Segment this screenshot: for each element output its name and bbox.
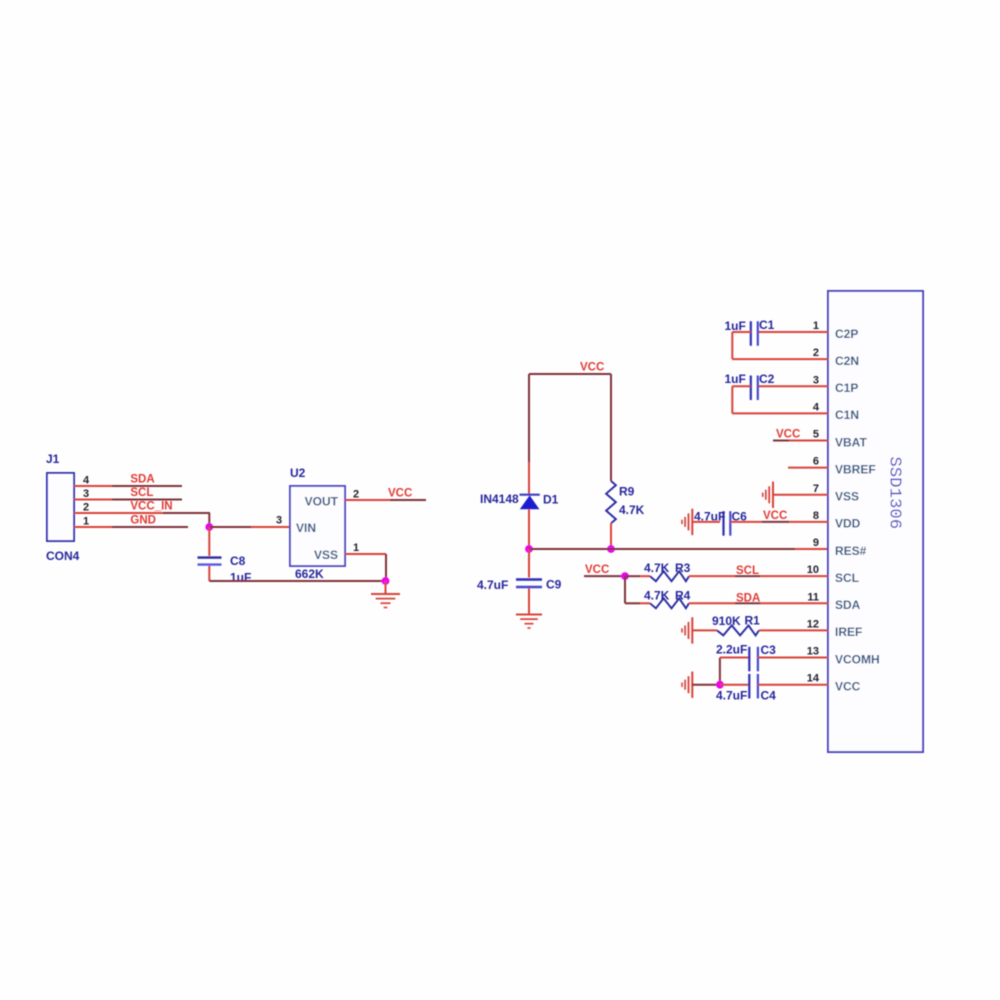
IC pin 8 name VDD xyxy=(835,517,861,531)
svg-text:VSS: VSS xyxy=(835,490,859,504)
svg-text:3: 3 xyxy=(83,488,89,500)
label R1 xyxy=(745,614,761,628)
resistor R1 xyxy=(717,625,759,635)
IC pin number 3 xyxy=(813,374,819,386)
svg-text:R4: R4 xyxy=(675,588,691,602)
wire junction stub down xyxy=(385,581,387,594)
svg-text:C1: C1 xyxy=(759,318,775,332)
label C1 xyxy=(759,318,775,332)
wire ground to C4 junction xyxy=(692,684,720,686)
svg-text:4.7K: 4.7K xyxy=(644,561,670,575)
IC pin 13 wire (VCOMH) xyxy=(758,657,828,659)
svg-text:C2P: C2P xyxy=(835,327,858,341)
svg-text:SCL: SCL xyxy=(130,487,153,499)
svg-text:3: 3 xyxy=(276,514,282,526)
svg-text:1uF: 1uF xyxy=(230,571,251,585)
value 4.7K of R4 xyxy=(644,588,670,602)
label D1 xyxy=(543,492,559,506)
svg-text:VOUT: VOUT xyxy=(305,494,339,508)
svg-text:C1N: C1N xyxy=(835,408,859,422)
IC pin number 11 xyxy=(807,591,819,603)
IC pin 4 name C1N xyxy=(835,408,859,422)
J1 pin number 1 xyxy=(83,515,89,527)
wire ground to C6 xyxy=(692,521,720,523)
svg-text:VCC_IN: VCC_IN xyxy=(130,501,172,513)
capacitor C6 xyxy=(724,511,731,535)
svg-text:VBREF: VBREF xyxy=(835,462,876,476)
wire junction to R3 xyxy=(625,575,650,577)
value 4.7uF of C6 xyxy=(694,510,725,524)
svg-text:14: 14 xyxy=(807,673,820,685)
label J1 xyxy=(46,452,60,466)
label U2 xyxy=(290,466,306,480)
svg-text:2: 2 xyxy=(813,347,819,359)
IC pin number 14 xyxy=(807,673,820,685)
svg-text:2: 2 xyxy=(83,501,89,513)
IC pin 11 name SDA xyxy=(835,598,861,612)
svg-text:1uF: 1uF xyxy=(725,372,746,386)
IC pin 5 wire (VBAT) xyxy=(773,440,828,442)
value 4.7uF of C4 xyxy=(716,689,747,703)
svg-text:C4: C4 xyxy=(761,689,777,703)
IC pin 5 name VBAT xyxy=(835,435,867,449)
J1 pin 1 wire (GND) xyxy=(74,526,188,528)
svg-text:VCC: VCC xyxy=(585,564,609,576)
svg-text:VIN: VIN xyxy=(296,521,316,535)
svg-text:C9: C9 xyxy=(546,577,562,591)
svg-text:VDD: VDD xyxy=(835,517,861,531)
net label VCC at VBAT xyxy=(776,428,800,440)
wire U2 VSS to ground xyxy=(345,554,386,581)
J1 pin 2 wire (VCC_IN) xyxy=(74,512,210,514)
svg-text:3: 3 xyxy=(813,374,819,386)
wire VCC rail down to D1 cathode xyxy=(528,374,530,494)
svg-text:VCC: VCC xyxy=(835,679,861,693)
U2 pin number 2 xyxy=(353,488,359,500)
IC pin number 10 xyxy=(807,564,819,576)
J1 pin number 4 xyxy=(83,474,90,486)
value 1uF xyxy=(230,571,251,585)
value 910K of R1 xyxy=(712,614,741,628)
svg-text:910K: 910K xyxy=(712,614,741,628)
svg-text:IN4148: IN4148 xyxy=(480,492,519,506)
J1 pin number 2 xyxy=(83,501,89,513)
label C9 xyxy=(546,577,562,591)
net label GND xyxy=(130,514,156,526)
IC pin 2 name C2N xyxy=(835,354,859,368)
ground symbol at C6 xyxy=(682,509,692,535)
label C2 xyxy=(759,372,775,386)
wire VCC top rail xyxy=(529,373,611,375)
IC pin 10 wire (SCL) xyxy=(689,575,828,577)
net label VCC at VDD xyxy=(763,510,787,522)
IC pin 3 wire (C1P) xyxy=(758,385,828,387)
U2 pin number 3 xyxy=(276,514,282,526)
wire U2 VOUT to VCC xyxy=(345,499,426,501)
junction dot VSS/GND rail xyxy=(382,577,390,585)
wire C2 left to pin 4 loop xyxy=(732,386,751,413)
IC pin number 9 xyxy=(813,537,819,549)
wire C8 bottom to GND rail xyxy=(209,566,385,581)
svg-text:D1: D1 xyxy=(543,492,559,506)
svg-text:C2N: C2N xyxy=(835,354,859,368)
label C6 xyxy=(732,510,748,524)
value 4.7K of R9 xyxy=(619,503,645,517)
value 4.7K of R3 xyxy=(644,561,670,575)
svg-text:SSD1306: SSD1306 xyxy=(885,457,904,530)
svg-text:7: 7 xyxy=(813,483,819,495)
wire corner to C3 xyxy=(720,657,749,659)
svg-text:IREF: IREF xyxy=(835,625,862,639)
ground symbol below C9 xyxy=(516,615,542,629)
label C8 xyxy=(230,554,246,568)
label CON4 xyxy=(46,549,80,563)
ground symbol at VSS pin 7 xyxy=(763,482,773,508)
diode D1 (IN4148) xyxy=(520,495,540,510)
wire ground to R1 xyxy=(692,629,717,631)
IC pin number 12 xyxy=(807,618,819,630)
wire R9 to RES# node xyxy=(610,523,612,549)
svg-text:C1P: C1P xyxy=(835,381,858,395)
wire junction to U2 VIN xyxy=(209,526,290,528)
IC pin 4 wire (C1N) xyxy=(732,412,828,414)
net label SDA xyxy=(130,474,154,486)
net label VCC at pullups xyxy=(585,564,609,576)
svg-text:VCC: VCC xyxy=(776,428,800,440)
label R9 xyxy=(619,485,635,499)
value 4.7uF of C9 xyxy=(477,578,508,592)
svg-text:4: 4 xyxy=(83,474,90,486)
wire to R4 xyxy=(625,602,650,604)
svg-text:VCC: VCC xyxy=(388,487,412,499)
svg-text:SDA: SDA xyxy=(835,598,861,612)
wire VCC to R3 junction xyxy=(584,575,625,577)
svg-text:2.2uF: 2.2uF xyxy=(716,642,747,656)
svg-text:VSS: VSS xyxy=(314,548,338,562)
svg-text:VCC: VCC xyxy=(580,362,604,374)
svg-text:C3: C3 xyxy=(761,643,777,657)
svg-text:9: 9 xyxy=(813,537,819,549)
junction dot pullup VCC xyxy=(621,572,629,580)
svg-text:GND: GND xyxy=(130,514,156,526)
IC pin 11 wire (SDA) xyxy=(689,602,828,604)
svg-text:CON4: CON4 xyxy=(46,549,80,563)
svg-text:SDA: SDA xyxy=(736,592,760,604)
label C4 xyxy=(761,689,777,703)
svg-text:13: 13 xyxy=(807,646,819,658)
IC pin number 5 xyxy=(813,429,819,441)
capacitor C1 xyxy=(751,321,758,346)
value 1uF of C2 xyxy=(725,372,746,386)
resistor R9 xyxy=(606,481,616,523)
svg-text:1: 1 xyxy=(813,320,819,332)
IC pin number 8 xyxy=(813,510,819,522)
regulator U2 body xyxy=(290,486,345,566)
svg-text:2: 2 xyxy=(353,488,359,500)
net label VCC_IN xyxy=(130,501,172,513)
IC pin 10 name SCL xyxy=(835,571,859,585)
IC pin 9 name RES# xyxy=(835,544,867,558)
U2 pin name VOUT xyxy=(305,494,339,508)
label R3 xyxy=(675,561,691,575)
junction dot C3/C4/ground xyxy=(716,681,724,689)
svg-text:4.7K: 4.7K xyxy=(644,588,670,602)
label 662K xyxy=(295,567,324,581)
svg-text:11: 11 xyxy=(807,591,819,603)
svg-text:SCL: SCL xyxy=(835,571,859,585)
label R4 xyxy=(675,588,691,602)
J1 pin 4 wire (SDA) xyxy=(74,485,182,487)
svg-text:C2: C2 xyxy=(759,372,775,386)
net label SCL xyxy=(130,487,153,499)
svg-text:VCC: VCC xyxy=(763,510,787,522)
wire VCC rail down to R9 xyxy=(610,374,612,481)
junction dot R9/RES# xyxy=(607,545,615,553)
J1 pin 3 wire (SCL) xyxy=(74,499,182,501)
capacitor C3 xyxy=(749,647,758,672)
IC pin 14 wire (VCC) xyxy=(758,684,828,686)
junction dot D1/RES# xyxy=(525,545,533,553)
wire junction to C4 xyxy=(720,684,749,686)
IC pin 12 name IREF xyxy=(835,625,862,639)
svg-text:J1: J1 xyxy=(46,452,60,466)
svg-text:U2: U2 xyxy=(290,466,306,480)
net label VCC at U2 output xyxy=(388,487,412,499)
resistor R3 xyxy=(650,571,689,581)
IC pin 12 wire (IREF) xyxy=(759,629,828,631)
IC pin 6 name VBREF xyxy=(835,462,876,476)
J1 pin number 3 xyxy=(83,488,89,500)
IC pin 1 name C2P xyxy=(835,327,858,341)
wire C3 left corner down to VCC row xyxy=(719,658,721,685)
svg-text:4.7uF: 4.7uF xyxy=(694,510,725,524)
IC pin 6 wire (VBREF) xyxy=(788,467,828,469)
svg-text:VBAT: VBAT xyxy=(835,435,867,449)
svg-text:662K: 662K xyxy=(295,567,324,581)
wire C9 to ground xyxy=(528,588,530,614)
svg-text:4.7uF: 4.7uF xyxy=(477,578,508,592)
svg-text:SDA: SDA xyxy=(130,474,154,486)
net label SCL at pin 10 xyxy=(736,565,759,577)
IC pin 7 wire (VSS) xyxy=(773,494,828,496)
net label SDA at pin 11 xyxy=(736,592,760,604)
wire VCC junction down to R4 row xyxy=(624,576,626,603)
IC pin number 1 xyxy=(813,320,819,332)
wire VCC_IN corner down to junction xyxy=(208,513,210,527)
svg-text:4.7uF: 4.7uF xyxy=(716,689,747,703)
net label VCC top rail xyxy=(580,362,604,374)
ground symbol at C4 xyxy=(682,671,692,697)
svg-text:1: 1 xyxy=(353,542,359,554)
wire junction down to C8 xyxy=(208,527,210,556)
svg-text:4: 4 xyxy=(813,401,820,413)
svg-text:C8: C8 xyxy=(230,554,246,568)
capacitor C9 xyxy=(516,580,542,588)
U2 pin number 1 xyxy=(353,542,359,554)
capacitor C2 xyxy=(751,376,758,401)
svg-text:6: 6 xyxy=(813,456,819,468)
svg-text:1: 1 xyxy=(83,515,89,527)
IC pin number 4 xyxy=(813,401,820,413)
svg-text:8: 8 xyxy=(813,510,819,522)
svg-text:VCOMH: VCOMH xyxy=(835,652,880,666)
IC pin number 6 xyxy=(813,456,819,468)
capacitor C4 xyxy=(749,674,758,699)
svg-text:4.7K: 4.7K xyxy=(619,503,645,517)
svg-text:SCL: SCL xyxy=(736,565,759,577)
svg-text:RES#: RES# xyxy=(835,544,867,558)
svg-text:10: 10 xyxy=(807,564,819,576)
IC pin 14 name VCC xyxy=(835,679,861,693)
IC pin 8 wire (VDD) xyxy=(730,521,828,523)
svg-text:R3: R3 xyxy=(675,561,691,575)
IC pin number 7 xyxy=(813,483,819,495)
svg-text:R1: R1 xyxy=(745,614,761,628)
IC pin number 2 xyxy=(813,347,819,359)
U2 pin name VSS xyxy=(314,548,338,562)
IC pin 7 name VSS xyxy=(835,490,859,504)
IC pin 3 name C1P xyxy=(835,381,858,395)
IC pin 2 wire (C2N) xyxy=(732,358,828,360)
IC pin 13 name VCOMH xyxy=(835,652,880,666)
label SSD1306 (rotated) xyxy=(885,457,904,530)
wire RES# net to IC pin 9 xyxy=(529,548,828,550)
IC pin 1 wire (C2P) xyxy=(758,331,828,333)
svg-text:1uF: 1uF xyxy=(725,319,746,333)
wire D1 anode to RES# node xyxy=(528,509,530,549)
U2 pin name VIN xyxy=(296,521,316,535)
capacitor C8 xyxy=(198,558,222,565)
svg-text:R9: R9 xyxy=(619,485,635,499)
label IN4148 xyxy=(480,492,519,506)
junction dot VCC_IN/C8 xyxy=(205,523,213,531)
ground symbol at R1 xyxy=(682,617,692,643)
value 2.2uF of C3 xyxy=(716,642,747,656)
svg-text:5: 5 xyxy=(813,429,819,441)
resistor R4 xyxy=(650,598,689,608)
svg-text:12: 12 xyxy=(807,618,819,630)
IC pin number 13 xyxy=(807,646,819,658)
ground symbol at U2 VSS xyxy=(371,594,400,608)
value 1uF of C1 xyxy=(725,319,746,333)
wire RES# node down to C9 xyxy=(528,549,530,578)
connector J1 body xyxy=(47,473,74,541)
IC U1 SSD1306 body xyxy=(828,291,923,752)
wire C1 left to pin 2 loop xyxy=(732,332,751,359)
label C3 xyxy=(761,643,777,657)
